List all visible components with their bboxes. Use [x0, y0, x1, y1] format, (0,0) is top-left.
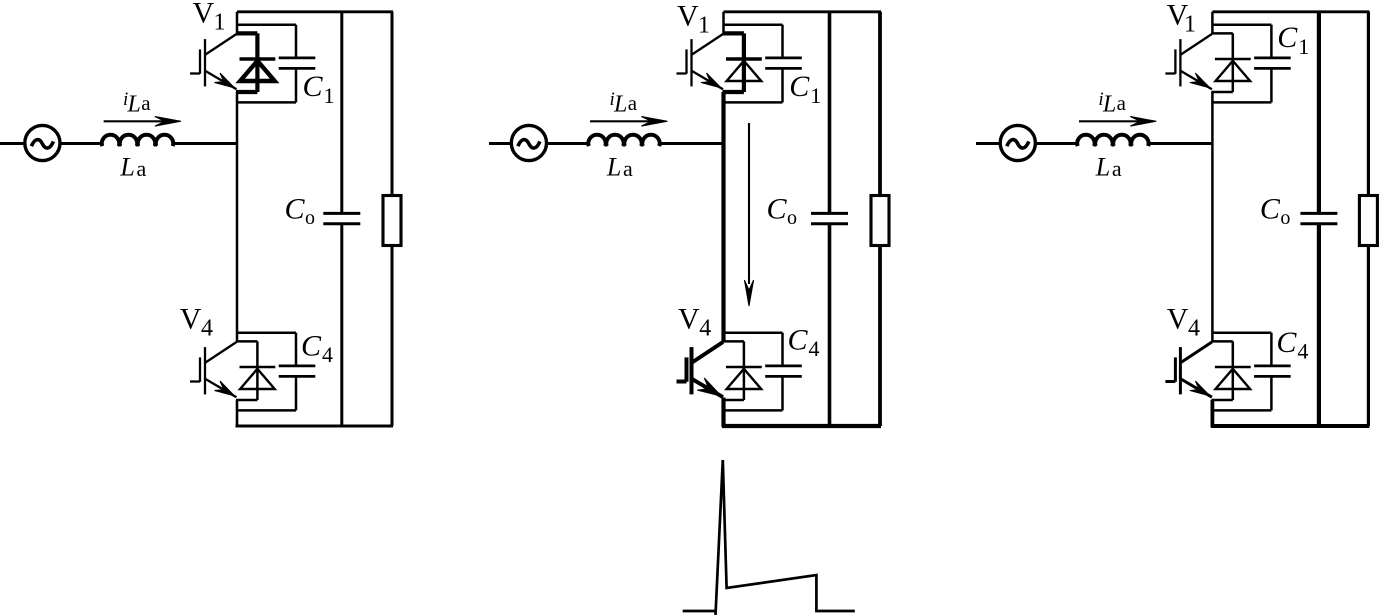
svg-text:4: 4 — [809, 336, 820, 361]
svg-text:o: o — [305, 207, 315, 229]
svg-text:4: 4 — [201, 316, 213, 342]
svg-text:V: V — [180, 303, 202, 336]
svg-text:4: 4 — [699, 316, 711, 342]
svg-text:L: L — [606, 152, 621, 181]
svg-text:4: 4 — [1188, 316, 1200, 342]
svg-text:1: 1 — [324, 83, 335, 108]
svg-text:a: a — [1117, 91, 1127, 115]
svg-text:a: a — [137, 156, 147, 181]
svg-text:1: 1 — [698, 13, 710, 39]
svg-text:a: a — [141, 91, 151, 115]
svg-text:L: L — [613, 92, 627, 118]
svg-text:C: C — [1276, 326, 1297, 359]
svg-text:a: a — [623, 156, 633, 181]
svg-text:C: C — [301, 330, 322, 363]
svg-text:1: 1 — [810, 83, 821, 108]
svg-text:o: o — [1280, 207, 1290, 229]
svg-text:1: 1 — [1184, 12, 1196, 38]
svg-text:C: C — [788, 324, 809, 357]
svg-text:C: C — [285, 192, 306, 225]
svg-text:a: a — [628, 91, 638, 115]
svg-text:L: L — [119, 152, 134, 181]
svg-text:C: C — [303, 70, 324, 103]
svg-text:a: a — [1112, 156, 1122, 181]
svg-text:L: L — [1095, 152, 1110, 181]
svg-text:4: 4 — [1297, 339, 1308, 364]
svg-text:C: C — [767, 192, 788, 225]
svg-text:L: L — [127, 92, 141, 118]
svg-text:C: C — [1277, 21, 1298, 54]
svg-text:C: C — [789, 70, 810, 103]
svg-text:C: C — [1260, 192, 1281, 225]
svg-text:V: V — [1167, 303, 1189, 336]
svg-text:L: L — [1102, 92, 1116, 118]
svg-text:1: 1 — [1298, 34, 1309, 59]
svg-text:V: V — [677, 0, 699, 33]
svg-text:o: o — [787, 207, 797, 229]
svg-text:1: 1 — [214, 10, 226, 36]
svg-text:4: 4 — [322, 342, 333, 367]
svg-text:V: V — [193, 0, 215, 29]
svg-text:V: V — [678, 303, 700, 336]
